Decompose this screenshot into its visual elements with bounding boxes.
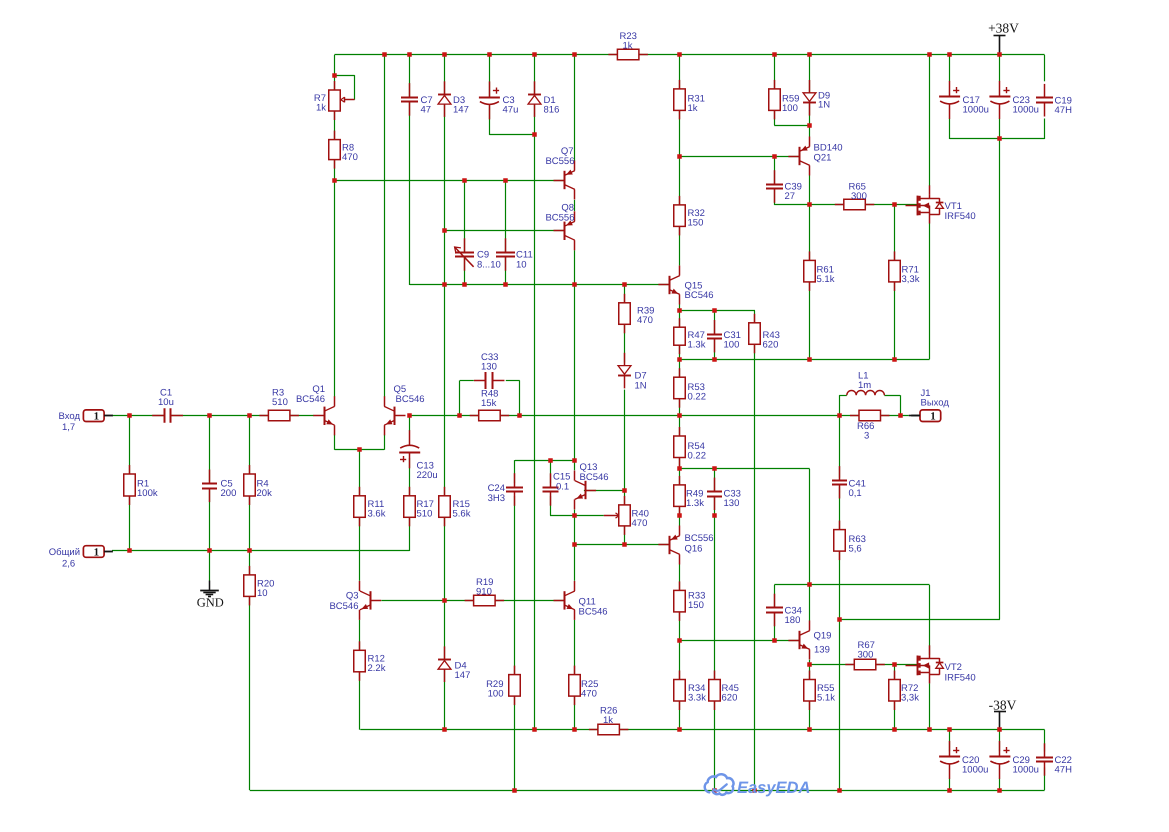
svg-text:100: 100 [488,689,504,700]
svg-text:5.1k: 5.1k [817,693,835,704]
svg-text:-38V: -38V [989,697,1017,712]
svg-text:147: 147 [455,670,471,681]
svg-text:470: 470 [637,315,653,326]
svg-text:BC546: BC546 [396,394,425,405]
svg-text:1N: 1N [635,380,647,391]
svg-text:47: 47 [421,105,432,116]
svg-text:GND: GND [197,596,224,610]
svg-text:3,3k: 3,3k [902,274,920,285]
svg-text:910: 910 [476,587,492,598]
svg-text:2,6: 2,6 [62,559,75,570]
svg-text:3H3: 3H3 [488,493,505,504]
svg-text:10: 10 [257,588,268,599]
svg-text:1N: 1N [818,100,830,111]
svg-text:300: 300 [858,650,874,661]
svg-text:100: 100 [782,103,798,114]
svg-text:0.22: 0.22 [688,451,707,462]
svg-text:15k: 15k [481,398,497,409]
svg-text:BC556: BC556 [685,533,714,544]
svg-text:300: 300 [851,191,867,202]
svg-text:3,3k: 3,3k [901,693,919,704]
svg-text:Выход: Выход [921,398,950,409]
svg-text:1k: 1k [603,715,613,726]
svg-text:816: 816 [544,105,560,116]
svg-text:Q16: Q16 [685,544,703,555]
svg-text:1000u: 1000u [962,765,988,776]
svg-text:147: 147 [453,105,469,116]
svg-text:47H: 47H [1055,765,1073,776]
svg-text:1.3k: 1.3k [688,340,706,351]
svg-text:0,1: 0,1 [849,488,862,499]
svg-text:47u: 47u [503,105,519,116]
svg-text:Q21: Q21 [814,153,832,164]
svg-text:1: 1 [94,547,100,559]
svg-text:5.6k: 5.6k [453,509,471,520]
svg-text:470: 470 [632,518,648,529]
svg-text:100: 100 [724,340,740,351]
svg-text:IRF540: IRF540 [945,211,976,222]
svg-text:180: 180 [785,615,801,626]
svg-text:470: 470 [581,689,597,700]
svg-text:20k: 20k [257,488,273,499]
svg-text:3.6k: 3.6k [368,509,386,520]
svg-text:1000u: 1000u [963,105,989,116]
svg-text:VT2: VT2 [945,662,962,673]
svg-text:0.22: 0.22 [688,392,707,403]
svg-text:+38V: +38V [988,21,1019,36]
svg-text:1000u: 1000u [1013,105,1039,116]
svg-text:10: 10 [516,260,527,271]
svg-text:5,6: 5,6 [849,544,862,555]
svg-text:BC546: BC546 [296,394,325,405]
svg-text:BC546: BC546 [579,607,608,618]
svg-text:BC546: BC546 [685,290,714,301]
svg-text:130: 130 [724,498,740,509]
svg-text:0.1: 0.1 [556,482,569,493]
svg-text:1,7: 1,7 [62,422,75,433]
svg-text:510: 510 [272,397,288,408]
svg-text:47H: 47H [1055,105,1073,116]
svg-text:1m: 1m [858,380,871,391]
svg-text:620: 620 [763,340,779,351]
svg-text:3.3k: 3.3k [688,693,706,704]
svg-text:3: 3 [864,431,869,442]
svg-text:1k: 1k [623,41,633,52]
svg-text:IRF540: IRF540 [945,673,976,684]
svg-text:Вход: Вход [59,411,81,422]
svg-text:BC556: BC556 [545,156,574,167]
svg-text:100k: 100k [137,488,158,499]
svg-text:BC556: BC556 [545,213,574,224]
svg-text:620: 620 [722,693,738,704]
svg-text:BC546: BC546 [329,601,358,612]
svg-text:8...10: 8...10 [477,260,501,271]
svg-text:1k: 1k [688,103,698,114]
svg-text:1k: 1k [316,103,326,114]
svg-text:150: 150 [688,218,704,229]
svg-text:130: 130 [481,362,497,373]
svg-text:2.2k: 2.2k [368,663,386,674]
svg-text:150: 150 [688,600,704,611]
svg-text:1: 1 [94,411,100,423]
svg-text:470: 470 [342,152,358,163]
svg-text:220u: 220u [417,470,438,481]
svg-text:Q19: Q19 [814,631,832,642]
svg-text:10u: 10u [158,397,174,408]
svg-text:1: 1 [930,411,936,423]
svg-text:Общий: Общий [49,547,80,558]
svg-text:510: 510 [417,509,433,520]
svg-text:5.1k: 5.1k [817,274,835,285]
svg-text:BC546: BC546 [580,472,609,483]
svg-text:1000u: 1000u [1013,765,1039,776]
svg-text:200: 200 [221,488,237,499]
svg-text:EasyEDA: EasyEDA [737,779,810,797]
svg-text:1.3k: 1.3k [686,498,704,509]
svg-text:Q3: Q3 [346,591,359,602]
svg-text:139: 139 [814,645,830,656]
svg-text:27: 27 [785,191,796,202]
